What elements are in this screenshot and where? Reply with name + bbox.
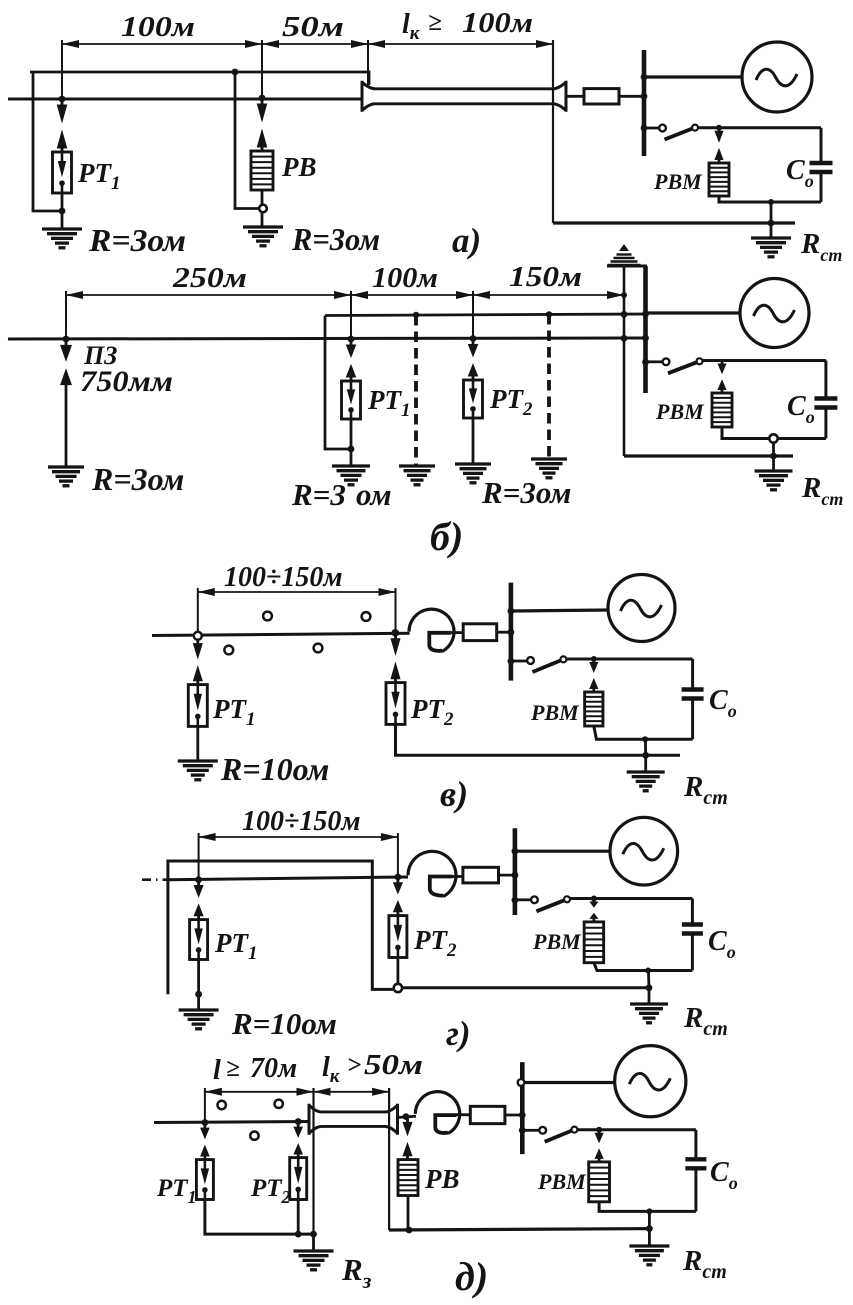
generator (b) xyxy=(740,279,809,348)
ground under P3 (b) xyxy=(48,465,84,468)
spark gap at PB (a) xyxy=(261,100,264,105)
svg-text:R=3ом: R=3ом xyxy=(291,221,380,257)
svg-text:Rст: Rст xyxy=(682,1245,727,1283)
wire: PT1 bypass box (b) xyxy=(325,316,351,450)
wire: PBM bottom loop (b) xyxy=(722,427,826,439)
capacitor C0 (v) xyxy=(691,659,694,688)
svg-text:R=10ом: R=10ом xyxy=(231,1006,337,1041)
node: bus-main (b) xyxy=(642,335,649,342)
wire: ground stem (v) xyxy=(644,755,647,771)
svg-text:РВМ: РВМ xyxy=(530,700,580,725)
svg-text:Cо: Cо xyxy=(710,1157,738,1193)
svg-text:ом: ом xyxy=(356,477,392,512)
svg-text:R=10ом: R=10ом xyxy=(220,751,329,787)
tubular arrester PT1 (b) xyxy=(342,381,361,419)
svg-text:б): б) xyxy=(430,514,463,559)
mast crossbar (b) xyxy=(607,265,647,268)
wire: bus to generator (v) xyxy=(512,610,608,611)
tubular arrester PT1 (v) xyxy=(188,685,207,727)
wire: resistor to bus (v) xyxy=(497,631,512,634)
wire: upper conductor (a) xyxy=(30,72,369,85)
node: dashed ground 2 tap (b) xyxy=(546,311,552,317)
wire: cable shield drop (a) xyxy=(552,40,554,223)
svg-text:Cо: Cо xyxy=(709,685,737,721)
svg-text:Cо: Cо xyxy=(786,155,814,191)
node: PT2 tap (b) xyxy=(470,335,477,342)
tubular arrester PT2 (v) xyxy=(386,683,405,725)
wire: upper conductor loop (b) xyxy=(325,314,646,316)
node: PBM tap (v) xyxy=(591,656,597,662)
valve arrester PBM (a) xyxy=(709,163,729,196)
spark gap at PT1 (g) xyxy=(197,882,200,886)
svg-text:100÷150м: 100÷150м xyxy=(224,562,343,593)
tick at PT2 (g) xyxy=(397,833,399,876)
node: PT1 tap (d) xyxy=(202,1119,209,1126)
svg-text:750мм: 750мм xyxy=(80,365,173,398)
ground Rst (d) xyxy=(629,1244,669,1247)
tubular arrester PT2 (g) xyxy=(389,916,407,958)
svg-text:100м: 100м xyxy=(462,8,533,39)
node: PT2 tap (d) xyxy=(295,1118,302,1125)
station bus (b) xyxy=(643,266,648,393)
wire: ground stem (d) xyxy=(648,1229,651,1245)
node: bus-switch (a) xyxy=(641,125,648,132)
svg-text:R=3: R=3 xyxy=(291,477,346,512)
svg-text:РТ2: РТ2 xyxy=(250,1175,291,1207)
antenna mast cone (b) xyxy=(619,244,629,251)
wire: bus to switch (b) xyxy=(647,360,662,363)
section b) dimension 100m xyxy=(351,294,473,296)
series resistor (a) xyxy=(584,89,619,104)
cable slack loop (d) xyxy=(415,1092,459,1134)
station bus (v) xyxy=(509,583,514,681)
svg-text:РТ1: РТ1 xyxy=(367,385,411,421)
svg-text:Rз: Rз xyxy=(341,1252,372,1293)
svg-text:Rст: Rст xyxy=(800,228,842,265)
tick at cable entry (a) xyxy=(367,40,369,85)
mast down-lead (b) xyxy=(623,266,626,456)
node: return-ground junction (d) xyxy=(646,1225,653,1232)
wire: bus to switch (a) xyxy=(646,127,659,130)
wire: PB bypass (a) xyxy=(235,72,261,209)
insulator rings (v) xyxy=(263,612,272,621)
valve arrester PBM (g) xyxy=(584,922,604,963)
wire: main feeder (b) xyxy=(8,338,646,339)
svg-text:100м: 100м xyxy=(121,12,195,43)
svg-text:г): г) xyxy=(446,1014,471,1053)
wire: PB down lead (d) xyxy=(407,1196,410,1231)
section d) dimension lk>50m xyxy=(314,1091,390,1093)
ground under PT1 (v) xyxy=(178,759,218,762)
generator (d) xyxy=(615,1046,686,1117)
wire: loop to return (d) xyxy=(648,1211,651,1228)
wire: shield return (a) xyxy=(553,221,795,224)
wire: loop to return (g) xyxy=(647,971,650,988)
node: PT2 tap (g) xyxy=(395,874,402,881)
node: return-ground junction (g) xyxy=(646,984,653,991)
node: bus-upper wire (b) xyxy=(642,311,649,318)
dashed ground lead 2 (b) xyxy=(547,314,551,458)
svg-text:Cо: Cо xyxy=(708,926,736,962)
wire: PBM bottom loop (g) xyxy=(594,963,693,971)
node: PT1 tap (a) xyxy=(59,96,66,103)
generator (g) xyxy=(610,817,678,885)
wire: junction down (b) xyxy=(772,443,775,470)
node: upper wire PB bypass tap (a) xyxy=(232,69,239,76)
spark gap at PT1 (b) xyxy=(350,341,353,346)
generator (v) xyxy=(608,575,675,642)
dashed ground lead 1 (b) xyxy=(414,315,418,465)
node: loop junction (g) xyxy=(645,968,651,974)
svg-text:≥: ≥ xyxy=(428,9,442,36)
spark gap at PT2 (b) xyxy=(472,341,475,346)
section d) dimension l>=70m xyxy=(205,1091,314,1093)
node: bus-switch (v) xyxy=(508,658,515,665)
svg-text:РТ1: РТ1 xyxy=(214,928,258,964)
wire: bus to generator (g) xyxy=(516,850,610,853)
node: PBM tap (d) xyxy=(596,1127,602,1133)
node: PT1 bottom junction (a) xyxy=(59,208,66,215)
svg-text:lк: lк xyxy=(402,9,421,44)
node: return-ground junction (v) xyxy=(642,752,649,759)
wire: upper bypass box (g) xyxy=(168,861,394,994)
ground under PT1 (a) xyxy=(42,227,82,230)
ground under PB (a) xyxy=(243,225,283,228)
tubular arrester PT1 (d) xyxy=(196,1160,213,1200)
wire: switch to C0 (g) xyxy=(570,897,692,900)
wire: loop to resistor (v) xyxy=(451,631,463,634)
wire: bus to switch (g) xyxy=(516,898,531,901)
svg-text:РВМ: РВМ xyxy=(537,1169,587,1194)
spark gap at PT1 (v) xyxy=(196,640,199,644)
svg-text:lк: lк xyxy=(322,1052,341,1087)
ring: loop-ground junction (b) xyxy=(769,434,777,442)
wire: return to station (d) xyxy=(389,1229,649,1230)
spark gap at PBM (a) xyxy=(718,128,721,132)
capacitor C0 (g) xyxy=(691,899,694,923)
svg-text:R=3ом: R=3ом xyxy=(481,475,571,510)
wire: mast return (b) xyxy=(624,454,793,457)
capacitor C0 (d) xyxy=(694,1130,697,1158)
wire: resistor to bus (a) xyxy=(619,95,646,98)
ground dashed-1 (b) xyxy=(399,464,435,467)
spark gap at PB (d) xyxy=(406,1119,409,1123)
node: bus-resistor (a) xyxy=(641,93,648,100)
ground Rst (g) xyxy=(630,1002,668,1005)
node: PB bottom junction (d) xyxy=(406,1227,413,1234)
spark gap at PT1 (a) xyxy=(61,101,64,106)
wire: cable-end shield drop (d) xyxy=(388,1088,390,1230)
svg-text:250м: 250м xyxy=(172,263,247,294)
node: bus-generator (g) xyxy=(512,848,519,855)
node: bus-generator (a) xyxy=(641,74,648,81)
wire: resistor to bus (g) xyxy=(499,874,517,877)
node: PT1 bottom junction (g) xyxy=(195,991,202,998)
station bus (a) xyxy=(642,50,647,156)
wire: bus to generator (d) xyxy=(524,1081,614,1084)
wire: switch to C0 (v) xyxy=(566,658,692,661)
node: PT1 tap (g) xyxy=(195,876,202,883)
ground Rst (a) xyxy=(751,236,791,239)
node: upper wire / PT1 bypass corner (a) xyxy=(33,72,62,211)
capacitor C0 (b) xyxy=(824,361,827,397)
svg-text:Rст: Rст xyxy=(683,1002,728,1040)
spark gap at PT2 (v) xyxy=(394,635,397,639)
wire: dash-dot continuation (g) xyxy=(142,878,172,881)
svg-text:РТ2: РТ2 xyxy=(410,694,454,730)
wire: cable to resistor (a) xyxy=(566,95,584,98)
svg-text:l: l xyxy=(213,1055,221,1086)
wire: P3 down lead (b) xyxy=(65,389,68,466)
wire: switch to C0 (b) xyxy=(703,359,826,362)
ground R3 (d) xyxy=(294,1249,334,1252)
tick at PT1 (b) xyxy=(350,291,352,339)
svg-text:РВМ: РВМ xyxy=(532,929,582,954)
valve arrester PBM (b) xyxy=(712,393,732,427)
tick at PT1 (a) xyxy=(61,40,63,99)
node: mast-main line (b) xyxy=(621,335,628,342)
spark gap at PBM (g) xyxy=(593,899,596,903)
section g) dimension 100-150m xyxy=(199,836,398,838)
wire: loop to resistor (d) xyxy=(456,1113,470,1116)
wire: PBM bottom loop (a) xyxy=(719,196,821,202)
ground dashed-2 (b) xyxy=(531,457,567,460)
spark gap at PT2 (g) xyxy=(396,879,399,883)
knife switch (g) xyxy=(531,896,538,903)
svg-text:>: > xyxy=(347,1052,361,1079)
spark gap at PBM (v) xyxy=(592,659,595,663)
svg-text:РВМ: РВМ xyxy=(653,169,703,194)
shielded cable (d) xyxy=(309,1104,321,1135)
knife switch (a) xyxy=(659,125,666,132)
wire: main feeder (d) xyxy=(154,1122,309,1123)
wire: loop to return (v) xyxy=(644,739,647,755)
node: bus-switch (b) xyxy=(642,359,649,366)
wire: cable to PB junction (d) xyxy=(398,1116,417,1117)
node: bus-switch (d) xyxy=(519,1127,526,1134)
ring: bus-generator junction (d) xyxy=(518,1079,525,1086)
node: loop junction (v) xyxy=(642,736,648,742)
tick at PT1 (d) xyxy=(204,1088,206,1123)
valve arrester PB (d) xyxy=(398,1160,418,1196)
shielded cable (a) xyxy=(362,81,375,112)
node: loop-ground junction (a) xyxy=(768,199,774,205)
node: bus-resistor (d) xyxy=(519,1112,526,1119)
section v) dimension 100-150m xyxy=(198,591,396,593)
wire: main feeder (g) xyxy=(168,877,408,880)
wire: PT1 down lead (v) xyxy=(196,726,199,760)
valve arrester PB (a) xyxy=(251,151,273,190)
wire: loop to station ground (a) xyxy=(770,202,773,237)
svg-text:100м: 100м xyxy=(372,263,438,294)
node: dim line at mast (b) xyxy=(621,292,627,298)
svg-text:а): а) xyxy=(452,221,481,260)
spark gap P3 (b) xyxy=(65,341,68,346)
tick at P3 (b) xyxy=(65,291,67,339)
svg-text:50м: 50м xyxy=(282,12,344,43)
node: loop junction (d) xyxy=(646,1208,652,1214)
node: PT2 bottom junction (d) xyxy=(295,1231,302,1238)
svg-text:РТ2: РТ2 xyxy=(413,925,457,961)
svg-text:РТ2: РТ2 xyxy=(489,384,533,420)
wire: cable-entry ground drop (d) xyxy=(312,1088,314,1234)
wire: PT2 down lead (g) xyxy=(396,958,399,985)
wire: PT2 down lead (d) xyxy=(297,1200,300,1235)
capacitor C0 (a) xyxy=(820,128,823,161)
wire: PT2 down lead (b) xyxy=(472,418,475,464)
series resistor (g) xyxy=(463,867,499,883)
wire: PBM bottom loop (v) xyxy=(594,726,693,739)
wire: PT1 to ground bus (d) xyxy=(205,1200,314,1235)
wire: bus to switch (v) xyxy=(512,660,527,663)
tubular arrester PT2 (d) xyxy=(290,1158,307,1200)
svg-text:РТ1: РТ1 xyxy=(212,694,256,730)
section a) dimension line 50m xyxy=(262,43,368,45)
node: dashed ground 1 tap (b) xyxy=(413,312,419,318)
svg-text:РВМ: РВМ xyxy=(655,399,705,424)
node: PBM tap (g) xyxy=(591,896,597,902)
node: bus-switch (g) xyxy=(512,897,519,904)
cable slack loop (v) xyxy=(409,609,454,651)
spark gap at PBM (b) xyxy=(721,361,724,365)
station bus (d) xyxy=(520,1062,525,1154)
generator (a) xyxy=(742,42,812,112)
section b) dimension 250m xyxy=(66,294,351,296)
wire: main feeder (a) xyxy=(8,98,361,101)
wire: resistor to bus (d) xyxy=(505,1114,524,1117)
ground Rst (v) xyxy=(627,770,665,773)
tick at PB (a) xyxy=(261,40,263,98)
svg-text:д): д) xyxy=(455,1254,488,1299)
knife switch (d) xyxy=(539,1127,546,1134)
svg-text:РВ: РВ xyxy=(281,152,317,182)
cable slack loop (g) xyxy=(408,851,456,896)
knife switch (v) xyxy=(527,657,534,664)
tubular arrester PT1 (a) xyxy=(53,152,72,193)
tick at PT2 (b) xyxy=(472,291,474,339)
svg-text:≥: ≥ xyxy=(226,1055,240,1082)
node: bus-generator (v) xyxy=(508,608,515,615)
wire: bus to switch (d) xyxy=(524,1129,539,1132)
wire: return to station (g) xyxy=(402,986,649,989)
svg-text:100÷150м: 100÷150м xyxy=(242,806,361,837)
spark gap at PT2 (d) xyxy=(297,1124,300,1128)
valve arrester PBM (d) xyxy=(589,1162,610,1202)
ground under PT2 (b) xyxy=(455,462,491,465)
ground Rst (b) xyxy=(755,469,793,472)
svg-text:РВ: РВ xyxy=(424,1164,460,1194)
svg-text:Rст: Rст xyxy=(801,472,843,509)
ground under PT1 (g) xyxy=(179,1008,219,1011)
wire: switch to C0 (a) xyxy=(698,126,821,129)
section a) dimension line lk>=100m xyxy=(368,43,553,45)
wire: PBM bottom loop (d) xyxy=(599,1202,696,1212)
svg-text:70м: 70м xyxy=(250,1053,297,1084)
ring: PT2 bottom junction (g) xyxy=(394,984,402,992)
wire: PT1 down lead (g) xyxy=(197,960,200,1010)
spark gap at PBM (d) xyxy=(598,1130,601,1134)
series resistor (v) xyxy=(463,624,497,641)
node: PT2 tap (v) xyxy=(392,629,400,637)
svg-text:РТ1: РТ1 xyxy=(156,1175,197,1207)
tubular arrester PT1 (g) xyxy=(190,920,208,960)
section a) dimension line 100m xyxy=(62,43,262,45)
knife switch (b) xyxy=(663,358,670,365)
wire: ground stem R3 (d) xyxy=(312,1234,315,1250)
wire: bus to generator (a) xyxy=(646,75,742,78)
section b) dimension 150m xyxy=(473,294,624,296)
node: PB tap (d) xyxy=(403,1113,410,1120)
node: bus-resistor (g) xyxy=(512,872,519,879)
node: PB bottom ring junction (a) xyxy=(261,190,264,205)
svg-text:в): в) xyxy=(440,774,468,814)
tubular arrester PT2 (b) xyxy=(464,380,483,418)
node: mast-upper wire (b) xyxy=(621,311,628,318)
wire: ground stem (g) xyxy=(648,988,651,1003)
ground under PT1 (b) xyxy=(332,464,370,467)
node: bus-resistor (v) xyxy=(508,629,515,636)
svg-text:РТ1: РТ1 xyxy=(77,158,121,194)
node: P3 tap (b) xyxy=(63,336,70,343)
svg-text:150м: 150м xyxy=(509,262,582,293)
ring: PT1 tap (v) xyxy=(194,632,202,640)
svg-text:R=3ом: R=3ом xyxy=(91,461,184,497)
wire: PT2 to return (v) xyxy=(396,724,681,755)
node: return-ground junction (b) xyxy=(770,453,777,460)
series resistor (d) xyxy=(470,1106,505,1123)
node: PT1 bottom junction (b) xyxy=(348,446,355,453)
node: PT1 tap (b) xyxy=(348,336,355,343)
insulator rings (d) xyxy=(218,1101,226,1109)
svg-text:Cо: Cо xyxy=(787,391,815,427)
node: PBM tap (a) xyxy=(716,125,722,131)
wire: main feeder (v) xyxy=(152,633,410,635)
tick at PT2 (v) xyxy=(395,588,397,631)
tick at PT1 (v) xyxy=(197,588,199,631)
svg-text:R=3ом: R=3ом xyxy=(88,222,186,258)
spark gap at PT1 (d) xyxy=(203,1125,206,1129)
wire: switch to C0 (d) xyxy=(577,1128,696,1131)
valve arrester PBM (v) xyxy=(585,692,603,726)
station bus (g) xyxy=(513,828,518,915)
tick at PT1 (g) xyxy=(198,833,200,879)
node: PB tap (a) xyxy=(259,95,266,102)
wire: loop to resistor (g) xyxy=(452,875,463,878)
node: return-ground junction (a) xyxy=(768,220,775,227)
svg-text:50м: 50м xyxy=(364,1050,423,1081)
svg-text:Rст: Rст xyxy=(683,771,728,809)
wire: bus to generator (b) xyxy=(647,311,740,314)
node: ground bus junction (d) xyxy=(310,1231,317,1238)
